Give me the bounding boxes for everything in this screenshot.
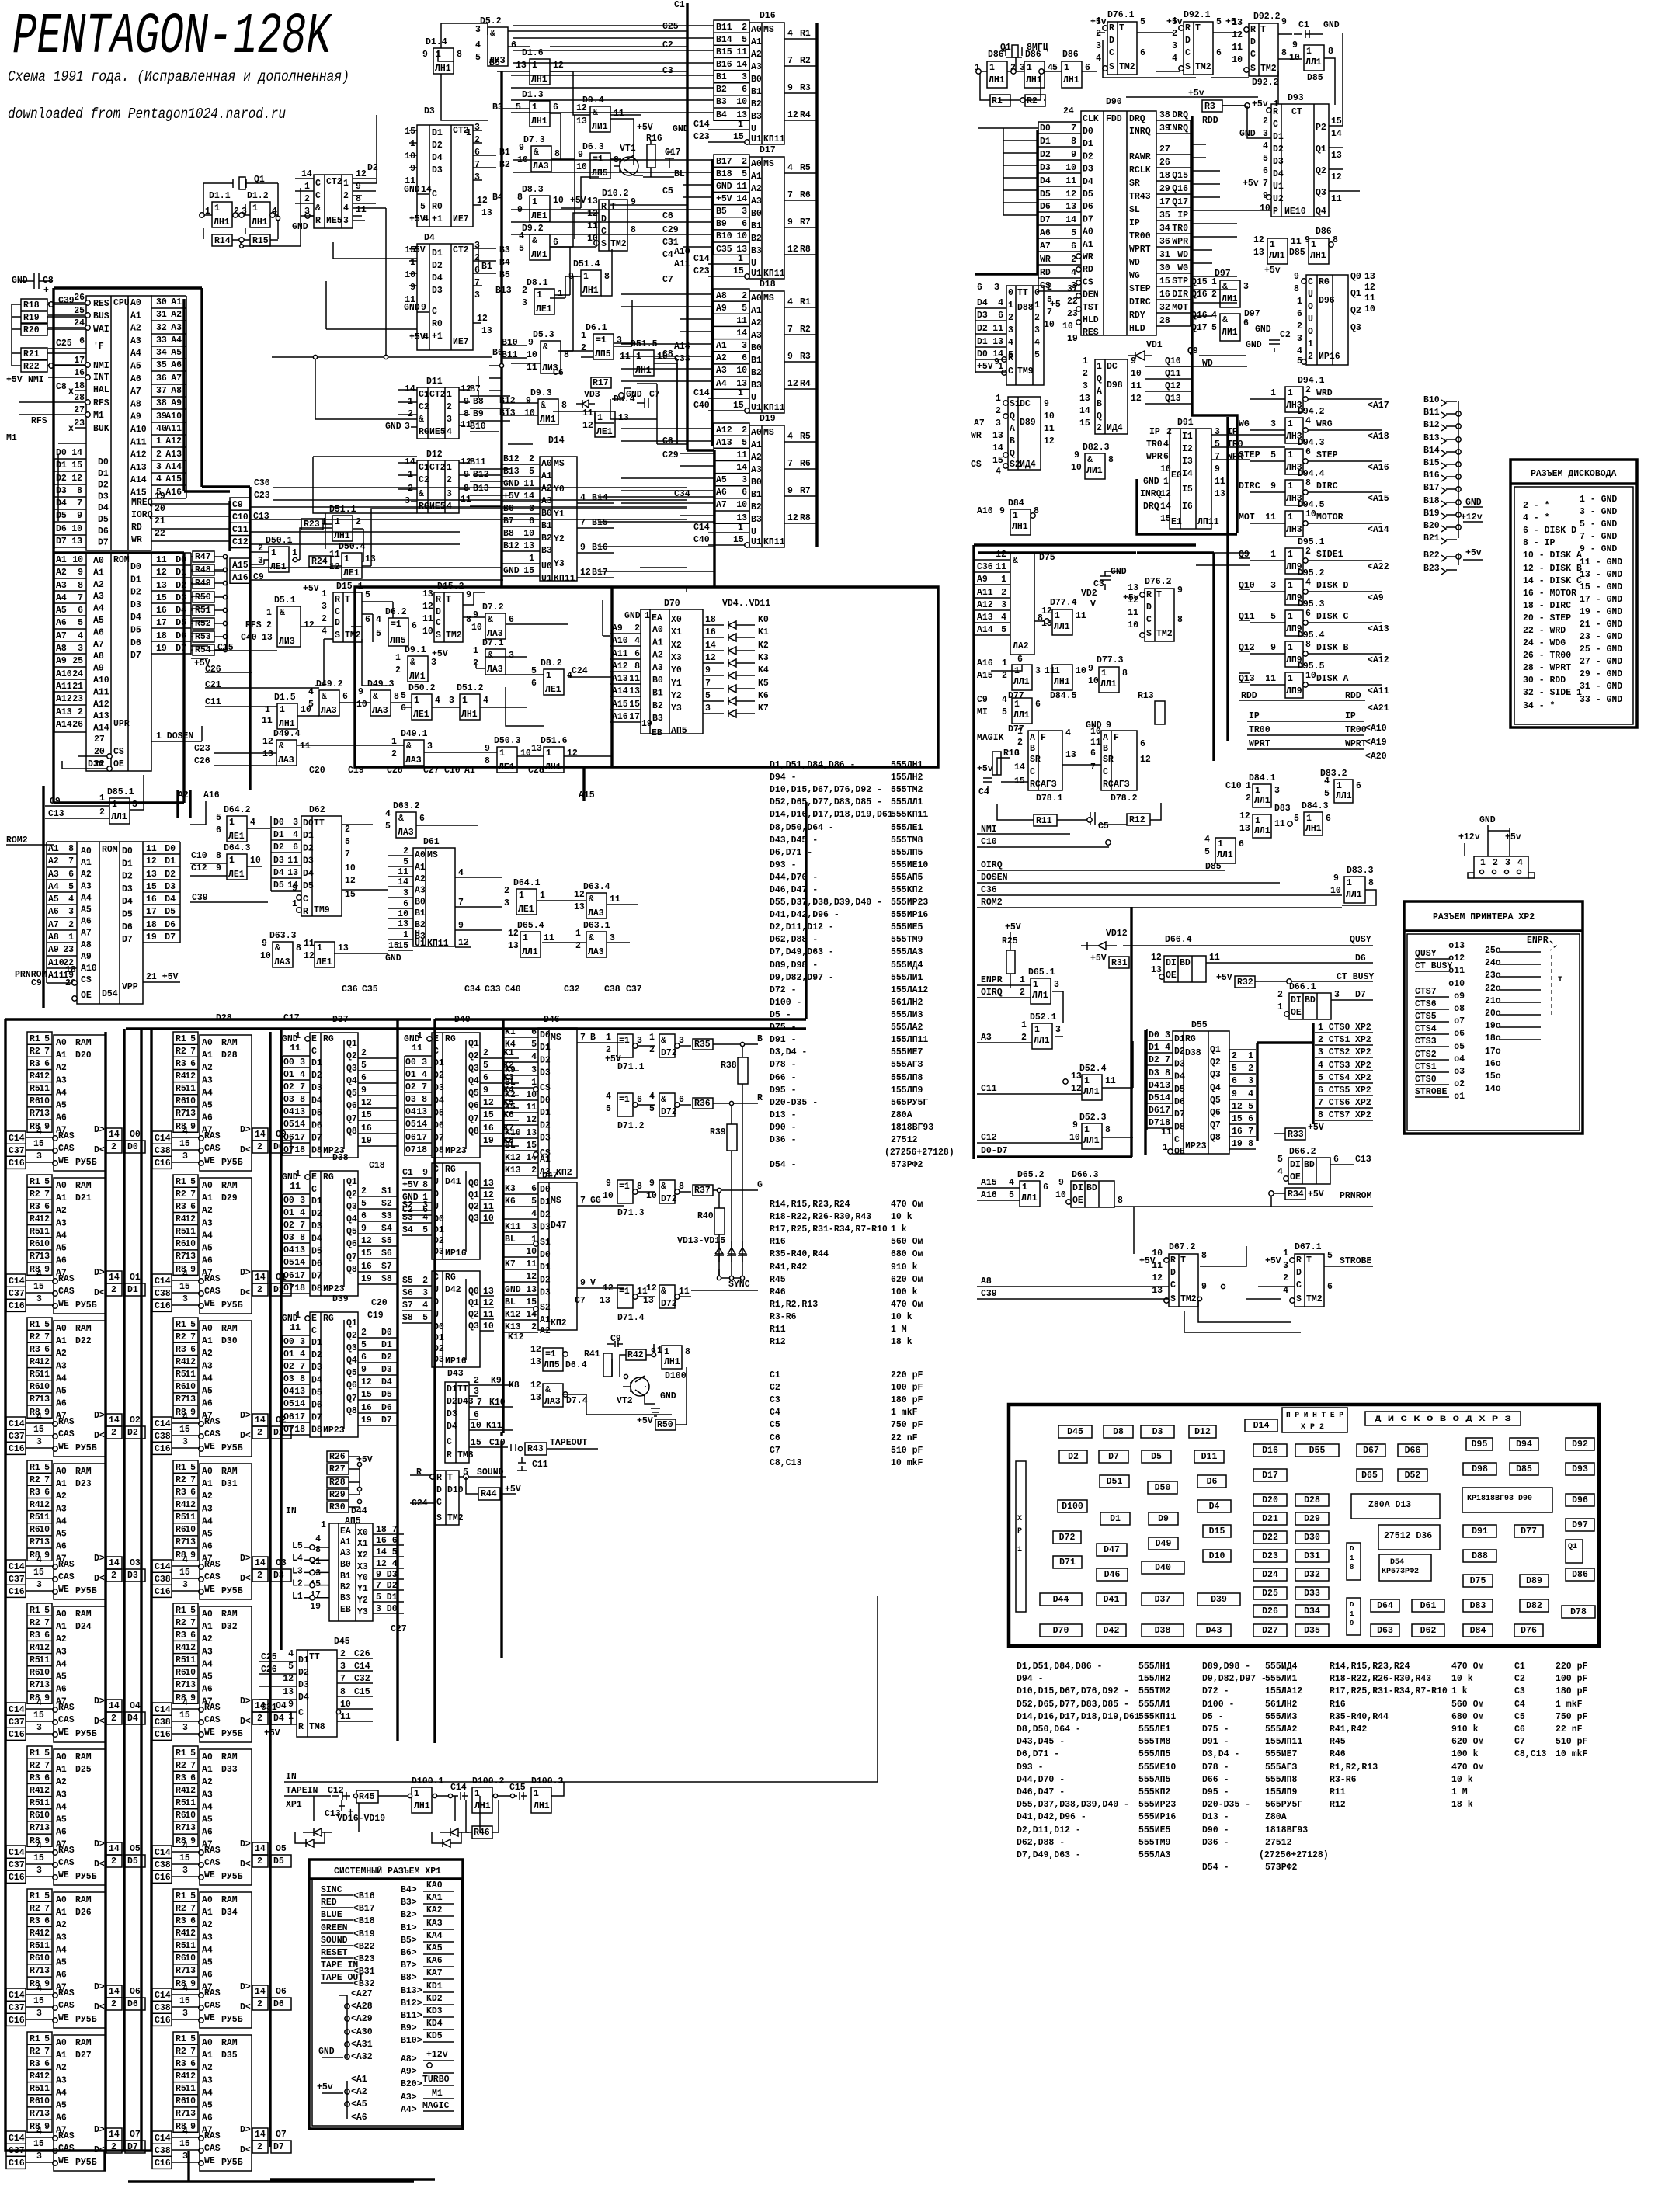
svg-text:155ЛП9: 155ЛП9 [1265, 1787, 1298, 1797]
svg-text:4: 4 [1172, 54, 1177, 64]
svg-text:6: 6 [531, 1027, 537, 1037]
svg-text:IP: IP [1249, 711, 1260, 721]
svg-text:6 - DISK D: 6 - DISK D [1523, 526, 1576, 536]
svg-text:Q6: Q6 [346, 1380, 357, 1391]
resistor R37 [693, 1185, 713, 1196]
svg-text:АГЗ: АГЗ [1114, 780, 1130, 790]
svg-text:D<: D< [94, 2002, 105, 2012]
svg-text:0: 0 [1008, 288, 1013, 298]
svg-text:5: 5 [1277, 1155, 1283, 1165]
svg-text:D49.4: D49.4 [273, 729, 301, 739]
svg-text:3: 3 [617, 335, 622, 346]
svg-text:6: 6 [190, 1059, 196, 1069]
svg-text:R45: R45 [1330, 1737, 1346, 1747]
PCB chip D55 [1295, 1444, 1339, 1457]
svg-text:D43,D45 -: D43,D45 - [1017, 1737, 1065, 1747]
svg-text:10: 10 [72, 555, 83, 565]
svg-text:3: 3 [182, 1580, 188, 1590]
svg-text:8 CTS7: 8 CTS7 [1318, 1110, 1350, 1120]
svg-text:CAS: CAS [204, 1572, 221, 1582]
svg-text:D84.5: D84.5 [1050, 691, 1077, 701]
svg-text:M1: M1 [6, 433, 17, 443]
svg-text:D17: D17 [760, 145, 776, 155]
svg-text:1: 1 [156, 436, 162, 446]
svg-text:2: 2 [266, 620, 272, 630]
svg-text:6: 6 [419, 814, 425, 824]
svg-text:12: 12 [530, 1380, 541, 1391]
svg-text:D1: D1 [311, 1196, 322, 1207]
svg-text:9: 9 [190, 1550, 196, 1561]
svg-text:A14: A14 [977, 625, 993, 635]
svg-text:A3: A3 [202, 1075, 213, 1085]
svg-text:4: 4 [422, 1070, 427, 1080]
svg-text:K1: K1 [505, 1027, 516, 1037]
svg-text:1: 1 [645, 611, 650, 621]
svg-text:8: 8 [1122, 668, 1128, 679]
svg-text:A2: A2 [202, 1920, 213, 1930]
svg-text:12: 12 [185, 1643, 196, 1653]
svg-text:1: 1 [1288, 512, 1293, 523]
svg-text:A0: A0 [751, 25, 762, 35]
svg-text:<A1: <A1 [351, 2075, 367, 2085]
svg-text:DIRC: DIRC [1239, 481, 1260, 491]
svg-text:D1: D1 [311, 1058, 322, 1068]
svg-text:D15: D15 [1209, 1526, 1225, 1537]
svg-text:R29: R29 [329, 1490, 346, 1500]
svg-text:O5: O5 [405, 1120, 416, 1130]
svg-text:R34: R34 [1288, 1189, 1304, 1200]
PCB chip D44 [1040, 1593, 1082, 1606]
svg-text:1 mkF: 1 mkF [891, 1408, 918, 1418]
svg-text:РУ5Б: РУ5Б [75, 2015, 97, 2025]
svg-text:8: 8 [300, 1374, 305, 1384]
svg-text:2: 2 [340, 1649, 346, 1659]
svg-text:Y2: Y2 [554, 534, 565, 544]
svg-text:10: 10 [471, 1421, 481, 1431]
PCB chip D47 [1097, 1544, 1127, 1556]
svg-text:C14: C14 [155, 1134, 171, 1144]
svg-text:B20>: B20> [401, 2079, 422, 2089]
svg-text:D78: D78 [1570, 1607, 1587, 1617]
svg-text:A: A [1103, 733, 1108, 743]
svg-text:15: 15 [992, 456, 1003, 466]
svg-text:D84: D84 [1470, 1626, 1486, 1636]
svg-text:11: 11 [290, 1323, 301, 1333]
PCB chip D38 [1142, 1624, 1184, 1637]
svg-text:1: 1 [295, 1311, 301, 1321]
svg-text:O5: O5 [283, 1258, 294, 1268]
svg-text:7: 7 [44, 1475, 50, 1485]
svg-text:&: & [661, 1287, 666, 1297]
svg-text:B19: B19 [1423, 509, 1440, 519]
svg-text:РУ5Б: РУ5Б [75, 1586, 97, 1596]
svg-text:CT2: CT2 [453, 245, 469, 255]
svg-text:7: 7 [300, 1362, 305, 1372]
svg-text:Q12: Q12 [1165, 381, 1181, 391]
svg-text:D6: D6 [311, 1121, 322, 1131]
svg-text:D46,D47 -: D46,D47 - [1017, 1787, 1065, 1797]
svg-text:555ТМ9: 555ТМ9 [1138, 1838, 1171, 1848]
svg-text:10: 10 [1055, 1190, 1066, 1200]
svg-text:6: 6 [1239, 839, 1244, 849]
svg-text:IORQ: IORQ [131, 510, 153, 520]
svg-text:470 Ом: 470 Ом [891, 1200, 923, 1210]
svg-text:&: & [1013, 556, 1018, 566]
svg-text:13: 13 [1239, 824, 1250, 834]
svg-text:D95.3: D95.3 [1298, 599, 1325, 609]
svg-text:1: 1 [317, 943, 322, 953]
svg-text:KD3: KD3 [426, 2006, 443, 2016]
svg-text:A1: A1 [340, 1537, 351, 1547]
svg-text:2: 2 [1097, 423, 1102, 433]
svg-text:3: 3 [293, 818, 298, 828]
svg-text:3: 3 [36, 2151, 42, 2162]
IC D29 RAM [173, 1175, 198, 1275]
svg-text:1: 1 [1270, 240, 1275, 250]
svg-text:2: 2 [257, 1856, 262, 1866]
svg-text:D94 -: D94 - [1017, 1674, 1044, 1684]
svg-text:D1.5: D1.5 [274, 693, 296, 703]
svg-text:C26: C26 [194, 756, 210, 766]
wire SYNC [691, 1290, 758, 1291]
svg-text:6: 6 [401, 703, 406, 714]
wire D4 pins [409, 248, 496, 323]
svg-text:12: 12 [304, 620, 315, 630]
svg-text:D<: D< [240, 1717, 251, 1727]
svg-text:CS: CS [113, 747, 124, 757]
svg-text:C9: C9 [610, 1334, 621, 1344]
trunk K bus [502, 1019, 504, 1433]
svg-text:1: 1 [1002, 658, 1007, 668]
svg-text:4: 4 [156, 474, 162, 484]
svg-text:A0: A0 [751, 159, 762, 169]
resistor R42 [626, 1349, 646, 1360]
svg-text:D84.1: D84.1 [1249, 773, 1276, 783]
svg-text:5: 5 [365, 590, 370, 600]
svg-text:A5: A5 [56, 1815, 67, 1825]
svg-text:RAM: RAM [221, 1467, 238, 1477]
svg-text:D12: D12 [426, 450, 443, 460]
svg-text:A2: A2 [130, 324, 141, 334]
svg-text:GND: GND [1465, 498, 1482, 508]
svg-text:A6: A6 [56, 2113, 67, 2123]
svg-text:10: 10 [398, 909, 408, 919]
svg-text:D77.3: D77.3 [1097, 655, 1124, 665]
svg-text:11: 11 [1364, 293, 1375, 304]
svg-text:4: 4 [36, 1269, 42, 1280]
svg-text:D88: D88 [1017, 303, 1034, 313]
svg-text:D52: D52 [1405, 1471, 1421, 1481]
svg-text:CS: CS [1083, 277, 1093, 287]
PCB chip D64 [1371, 1599, 1399, 1612]
svg-text:4: 4 [1001, 613, 1006, 623]
svg-text:6: 6 [742, 85, 747, 95]
svg-text:C7: C7 [770, 1446, 780, 1456]
svg-text:D1: D1 [540, 1043, 551, 1053]
svg-text:B16: B16 [592, 543, 608, 553]
svg-text:6: 6 [361, 1211, 367, 1221]
svg-text:A3: A3 [652, 663, 663, 673]
svg-text:3: 3 [447, 415, 452, 425]
svg-text:2: 2 [1021, 1033, 1027, 1043]
PCB chip D77 [1514, 1525, 1543, 1537]
svg-text:D83: D83 [1470, 1601, 1486, 1611]
svg-text:3: 3 [182, 2151, 188, 2162]
svg-text:Q7: Q7 [346, 1252, 357, 1262]
svg-text:P: P [1273, 207, 1278, 217]
svg-text:MS: MS [427, 850, 438, 860]
svg-text:C14: C14 [155, 1991, 171, 2001]
PCB chip D98 [1463, 1463, 1496, 1475]
svg-text:100 k: 100 k [1451, 1749, 1479, 1759]
svg-text:D9.2: D9.2 [522, 224, 544, 234]
PCB chip D19 vertical [1347, 1598, 1361, 1635]
svg-text:SR: SR [1030, 755, 1041, 765]
svg-text:11: 11 [1265, 674, 1276, 684]
svg-text:&: & [419, 415, 424, 425]
svg-text:TM2: TM2 [447, 1513, 464, 1523]
svg-text:S5: S5 [402, 1276, 413, 1286]
svg-text:6: 6 [190, 1916, 196, 1926]
svg-text:U: U [751, 124, 756, 134]
gate D85 ll1 top [1304, 45, 1324, 71]
svg-text:D6: D6 [273, 1999, 284, 2009]
svg-text:ROM: ROM [102, 845, 118, 855]
svg-text:RAS: RAS [58, 2131, 75, 2141]
svg-text:D4: D4 [1273, 169, 1284, 179]
svg-text:9: 9 [649, 1179, 655, 1189]
svg-text:RG: RG [323, 1314, 334, 1324]
svg-text:3: 3 [405, 422, 410, 432]
svg-text:D62: D62 [309, 805, 325, 815]
svg-text:U: U [1308, 290, 1313, 300]
svg-text:A0: A0 [202, 1610, 213, 1620]
svg-text:Y0: Y0 [554, 484, 565, 495]
svg-text:D52,D65,D77,D83,D85 -: D52,D65,D77,D83,D85 - [1017, 1700, 1129, 1710]
svg-text:C23: C23 [194, 744, 210, 754]
svg-text:CAS: CAS [58, 1429, 75, 1439]
svg-text:15: 15 [1079, 418, 1090, 429]
svg-text:o6: o6 [1454, 1029, 1465, 1039]
svg-text:A0: A0 [81, 846, 92, 856]
svg-text:10: 10 [250, 856, 261, 866]
svg-text:10: 10 [1071, 463, 1082, 473]
svg-text:D1: D1 [1040, 137, 1051, 147]
svg-text:8: 8 [679, 1182, 684, 1192]
svg-text:VPP: VPP [122, 982, 138, 992]
svg-text:5: 5 [78, 618, 83, 628]
svg-text:5: 5 [190, 1891, 196, 1901]
svg-text:D71.4: D71.4 [617, 1313, 645, 1323]
svg-text:D44,D70 -: D44,D70 - [770, 873, 818, 883]
svg-text:A4: A4 [56, 1659, 67, 1669]
svg-text:Q: Q [1010, 411, 1015, 422]
svg-text:2: 2 [1166, 427, 1172, 437]
svg-text:R16: R16 [1330, 1700, 1346, 1710]
svg-text:A2: A2 [202, 1349, 213, 1359]
svg-text:O0: O0 [405, 1057, 416, 1068]
svg-text:D>: D> [94, 1268, 105, 1278]
svg-text:10: 10 [736, 231, 747, 241]
svg-text:C32: C32 [354, 1674, 370, 1684]
svg-text:D: D [601, 214, 607, 224]
svg-text:12: 12 [1065, 189, 1076, 200]
svg-text:D47: D47 [1104, 1545, 1120, 1555]
svg-text:D72: D72 [661, 1299, 677, 1309]
svg-text:10: 10 [1364, 304, 1375, 314]
svg-text:D67.2: D67.2 [1169, 1242, 1196, 1252]
svg-text:11: 11 [1161, 1127, 1172, 1137]
svg-text:6: 6 [742, 353, 747, 363]
svg-text:C36: C36 [977, 562, 993, 572]
svg-text:R3: R3 [30, 1773, 40, 1783]
IC D23 RAM [27, 1460, 52, 1561]
svg-text:B17: B17 [592, 568, 608, 578]
svg-text:D: D [1146, 602, 1152, 613]
svg-text:V: V [1090, 599, 1096, 609]
svg-text:5: 5 [1270, 450, 1276, 460]
svg-text:14: 14 [421, 185, 432, 195]
svg-text:TM2: TM2 [446, 630, 462, 641]
svg-text:ЛА3: ЛА3 [274, 957, 290, 967]
svg-text:18 7: 18 7 [376, 1525, 398, 1535]
svg-text:2 CTS1: 2 CTS1 [1318, 1035, 1350, 1045]
svg-text:C: C [315, 191, 321, 201]
svg-text:9: 9 [44, 2122, 50, 2132]
svg-text:ЛА2: ЛА2 [1013, 641, 1029, 651]
svg-text:ИЕ7: ИЕ7 [453, 337, 469, 347]
svg-text:4 - *: 4 - * [1523, 513, 1550, 523]
svg-text:D7,D49,D63 -: D7,D49,D63 - [1017, 1850, 1081, 1860]
svg-text:D0: D0 [1083, 127, 1093, 137]
svg-text:D6: D6 [1174, 1097, 1185, 1107]
svg-text:C: C [315, 179, 321, 189]
svg-text:R28: R28 [329, 1478, 346, 1488]
svg-text:D100 -: D100 - [770, 998, 801, 1008]
PCB chip D17 [1253, 1469, 1287, 1481]
svg-text:3: 3 [1165, 1030, 1170, 1040]
svg-text:R35: R35 [694, 1040, 711, 1050]
svg-text:4: 4 [376, 615, 381, 625]
svg-text:B: B [757, 1034, 763, 1044]
PCB chip D21 [1253, 1512, 1287, 1525]
svg-text:WE: WE [58, 1156, 69, 1166]
svg-text:D1: D1 [1149, 1043, 1159, 1053]
svg-text:D78 -: D78 - [770, 1060, 797, 1070]
svg-text:555ИР23: 555ИР23 [891, 898, 928, 908]
svg-text:3: 3 [1034, 325, 1040, 335]
svg-text:C14: C14 [155, 2134, 171, 2144]
svg-text:Z80А: Z80А [1265, 1812, 1287, 1822]
svg-text:3: 3 [1243, 282, 1249, 292]
svg-text:D26: D26 [1262, 1606, 1278, 1616]
svg-text:10 mkF: 10 mkF [1556, 1749, 1588, 1759]
svg-text:C3: C3 [770, 1395, 780, 1405]
svg-text:O4: O4 [405, 1107, 416, 1117]
svg-text:12: 12 [787, 245, 798, 255]
svg-text:R1: R1 [30, 1606, 40, 1616]
svg-text:A4: A4 [202, 1802, 213, 1812]
svg-text:4: 4 [580, 493, 586, 503]
svg-text:C37: C37 [9, 1432, 25, 1442]
svg-text:3: 3 [531, 1222, 537, 1232]
svg-text:1: 1 [1163, 477, 1169, 487]
svg-text:15: 15 [388, 941, 399, 951]
svg-text:4: 4 [423, 332, 429, 342]
svg-text:MREQ: MREQ [131, 498, 153, 508]
svg-text:S: S [1250, 64, 1256, 74]
svg-text:KA1: KA1 [426, 1893, 443, 1903]
svg-text:OIRQ: OIRQ [981, 988, 1003, 998]
svg-text:3: 3 [78, 644, 83, 654]
svg-text:4: 4 [36, 1698, 42, 1708]
svg-text:A2: A2 [541, 484, 552, 494]
svg-text:A2: A2 [56, 1634, 67, 1644]
svg-text:22o: 22o [1485, 984, 1501, 994]
svg-text:6: 6 [44, 1630, 50, 1641]
svg-text:2: 2 [1034, 313, 1040, 323]
svg-text:A2: A2 [56, 1063, 67, 1073]
svg-text:R1: R1 [30, 1034, 40, 1044]
D29 cas boxes [152, 1274, 172, 1311]
svg-text:D4: D4 [311, 1234, 322, 1244]
svg-text:o8: o8 [1454, 1004, 1465, 1014]
svg-text:155ЛП11: 155ЛП11 [1265, 1737, 1302, 1747]
svg-text:C9: C9 [253, 572, 264, 582]
svg-text:15: 15 [33, 1568, 44, 1578]
svg-text:D72: D72 [1059, 1533, 1076, 1543]
svg-text:D3: D3 [311, 1083, 322, 1093]
svg-text:13: 13 [39, 1252, 50, 1262]
PCB chip D20 [1253, 1494, 1287, 1506]
resistor R32 [1235, 976, 1255, 988]
svg-text:C37: C37 [9, 1146, 25, 1156]
svg-text:D: D [1350, 1601, 1354, 1609]
svg-text:4: 4 [385, 809, 391, 819]
svg-text:12: 12 [580, 568, 591, 578]
transistor VT2 [631, 1377, 649, 1396]
svg-text:&: & [589, 933, 594, 943]
svg-text:18: 18 [294, 1145, 305, 1155]
PCB chip D62 [1412, 1624, 1444, 1637]
svg-text:RG: RG [323, 1172, 334, 1182]
svg-text:6: 6 [474, 148, 480, 158]
svg-text:R3: R3 [176, 1630, 186, 1641]
svg-text:A3: A3 [56, 1932, 67, 1943]
svg-text:A0: A0 [56, 1324, 67, 1334]
svg-text:D61: D61 [423, 837, 440, 847]
svg-text:10 mkF: 10 mkF [891, 1458, 923, 1468]
svg-text:C14: C14 [155, 1419, 171, 1429]
svg-text:X3: X3 [357, 1562, 368, 1572]
svg-text:K9: K9 [491, 1376, 502, 1386]
svg-text:D7: D7 [381, 1415, 392, 1425]
svg-text:D2: D2 [1083, 151, 1093, 161]
svg-text:16: 16 [1232, 1127, 1243, 1137]
svg-text:14: 14 [255, 1844, 266, 1854]
svg-text:1: 1 [344, 554, 349, 564]
svg-text:C29: C29 [662, 450, 679, 460]
svg-text:K12: K12 [505, 1153, 521, 1163]
resistor R15 [250, 234, 270, 246]
svg-text:B1: B1 [652, 689, 663, 699]
svg-text:RDY: RDY [1129, 311, 1145, 321]
gate D100 invert [662, 1346, 682, 1369]
svg-text:3: 3 [1274, 786, 1280, 796]
svg-text:12: 12 [185, 1214, 196, 1224]
PCB chip D11 [1194, 1450, 1224, 1463]
svg-text:D67: D67 [1363, 1446, 1379, 1456]
